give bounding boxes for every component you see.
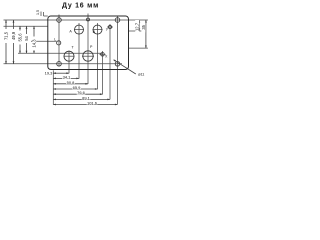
svg-text:Ду 16 мм: Ду 16 мм <box>62 3 99 10</box>
svg-text:L: L <box>54 38 56 42</box>
svg-text:71,5: 71,5 <box>3 31 8 40</box>
svg-text:12,7: 12,7 <box>134 22 139 31</box>
svg-text:14,3: 14,3 <box>31 39 36 48</box>
svg-text:54: 54 <box>24 36 29 41</box>
svg-text:1,5: 1,5 <box>36 10 40 15</box>
svg-text:35: 35 <box>141 24 146 29</box>
svg-text:⌀11: ⌀11 <box>138 72 144 76</box>
svg-text:19,3: 19,3 <box>45 70 54 75</box>
svg-text:101,6: 101,6 <box>87 101 98 106</box>
svg-text:49,9: 49,9 <box>11 31 16 40</box>
svg-text:55,6: 55,6 <box>17 33 22 42</box>
